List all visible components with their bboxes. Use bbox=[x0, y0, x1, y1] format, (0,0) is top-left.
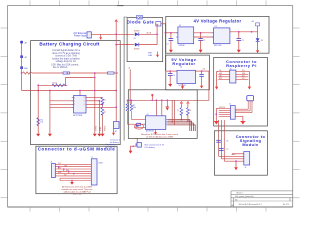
wire bus lines bbox=[168, 120, 190, 132]
wire IC right pin2 bbox=[86, 100, 99, 102]
fuse F2 bbox=[63, 72, 70, 74]
svg-text:U2: U2 bbox=[179, 25, 181, 27]
net labels vertical bbox=[96, 125, 107, 131]
wire inner top bbox=[38, 84, 67, 86]
svg-text:3V3: 3V3 bbox=[242, 70, 245, 72]
connector J7 bbox=[91, 159, 97, 185]
junction bbox=[235, 160, 237, 162]
ground bbox=[169, 50, 173, 53]
junction bbox=[99, 100, 101, 102]
svg-text:IO4: IO4 bbox=[242, 78, 244, 80]
svg-text:J6: J6 bbox=[51, 162, 53, 164]
wire 5V out down bbox=[175, 71, 209, 100]
svg-text:LiPo battery: LiPo battery bbox=[145, 146, 155, 149]
svg-text:J4: J4 bbox=[229, 104, 231, 106]
power flag BATT1 bbox=[20, 41, 27, 45]
net labels on bus bbox=[58, 163, 69, 177]
resistor R3 bbox=[37, 118, 40, 126]
wire battery to ground bbox=[131, 146, 137, 150]
svg-text:D3: D3 bbox=[261, 40, 263, 42]
svg-text:fine in 150mA: fine in 150mA bbox=[53, 66, 68, 69]
ground bbox=[235, 161, 237, 167]
svg-text:5: 5 bbox=[84, 104, 85, 106]
junction bbox=[21, 72, 23, 74]
svg-text:1k: 1k bbox=[177, 110, 179, 112]
power arrow down bbox=[256, 50, 259, 53]
svg-text:uGSM: uGSM bbox=[98, 162, 103, 164]
fuse F1 red zigzag bbox=[23, 72, 32, 74]
svg-text:6: 6 bbox=[84, 101, 85, 103]
usb power box bbox=[247, 96, 254, 101]
svg-text:5V0: 5V0 bbox=[219, 70, 222, 72]
junction bbox=[115, 44, 117, 46]
svg-text:MCP1700: MCP1700 bbox=[214, 45, 222, 47]
frame grid ticks bbox=[117, 5, 124, 7]
IC gnd stub bbox=[155, 130, 157, 133]
svg-text:Raspberry Pi: Raspberry Pi bbox=[226, 63, 257, 68]
svg-text:C2: C2 bbox=[203, 40, 205, 42]
ground bbox=[97, 134, 101, 137]
svg-text:GND: GND bbox=[219, 73, 222, 75]
svg-text:J3: J3 bbox=[230, 68, 232, 70]
rail wire bbox=[127, 99, 174, 101]
wire left gnd drop bbox=[215, 109, 217, 122]
wire into IC left bbox=[22, 90, 117, 92]
svg-text:1k: 1k bbox=[190, 110, 192, 112]
wire left column vertical bbox=[21, 43, 23, 90]
wire +BATT to diode2 bbox=[116, 44, 134, 46]
svg-text:LM2940: LM2940 bbox=[179, 45, 185, 47]
junction bbox=[215, 113, 217, 115]
block 5V voltage regulator bbox=[166, 55, 210, 90]
connector J3 bbox=[230, 70, 236, 83]
connector J4 bbox=[230, 106, 235, 120]
block raspberry pi bbox=[214, 57, 268, 126]
svg-text:Diode Gate: Diode Gate bbox=[127, 20, 155, 25]
wire 4V input bbox=[166, 32, 178, 34]
wire IC right pin3 bbox=[86, 103, 103, 105]
svg-text:(offer max): (offer max) bbox=[73, 192, 82, 195]
IC U3 regulator bbox=[214, 28, 230, 44]
wire left power drop bbox=[217, 72, 219, 87]
left input power flags bbox=[20, 41, 28, 70]
junction bbox=[94, 77, 96, 79]
resistor R8 bbox=[180, 103, 182, 108]
ground bbox=[240, 121, 245, 123]
capacitor C4 bbox=[169, 71, 171, 74]
capacitor C2 bbox=[200, 33, 202, 39]
junction bbox=[37, 90, 39, 92]
junction bbox=[68, 171, 70, 173]
junction bbox=[169, 70, 171, 72]
wire vertical x99.4 bbox=[98, 101, 100, 134]
wire to battery connector bbox=[115, 107, 117, 121]
wire external 5V bbox=[91, 33, 134, 35]
svg-text:at 3V3 for Arduino to I-GSM: at 3V3 for Arduino to I-GSM bbox=[146, 136, 173, 139]
svg-text:GPIO14: GPIO14 bbox=[219, 107, 225, 109]
diode D3 zener bbox=[257, 32, 259, 38]
vertical separator line bbox=[124, 17, 125, 141]
svg-text:+BT: +BT bbox=[24, 57, 27, 59]
block d-u3G module bbox=[36, 146, 117, 194]
junction bbox=[115, 33, 117, 35]
wires into connector bbox=[219, 155, 244, 157]
junction bbox=[161, 99, 163, 101]
svg-text:C7: C7 bbox=[226, 149, 228, 151]
OR tag box bbox=[137, 15, 143, 19]
wire feed from above bbox=[129, 69, 131, 104]
wire top long horizontal bbox=[32, 72, 118, 74]
junction bbox=[94, 90, 96, 92]
hierarchical pin bbox=[156, 22, 161, 26]
svg-text:TXD: TXD bbox=[219, 75, 222, 77]
junction bbox=[58, 166, 60, 168]
power flag +BATT up arrow bbox=[115, 21, 117, 34]
wire IC left pins bbox=[50, 100, 74, 102]
block 4V voltage regulator bbox=[166, 16, 269, 53]
wire OR output vertical bbox=[156, 24, 158, 45]
svg-text:C3: C3 bbox=[242, 40, 244, 42]
wire hier pin out bbox=[161, 23, 166, 25]
svg-text:1N5819: 1N5819 bbox=[134, 48, 140, 50]
power flag BATT3 bbox=[20, 66, 28, 70]
block OR diode gate bbox=[127, 18, 163, 62]
svg-text:MCP73831: MCP73831 bbox=[73, 115, 82, 117]
ground bbox=[237, 50, 241, 53]
power arrow down bbox=[166, 100, 168, 107]
ground bbox=[93, 134, 97, 137]
capacitor C5 bbox=[201, 71, 203, 74]
svg-text:NCP1402: NCP1402 bbox=[179, 85, 186, 87]
connector J6 bbox=[52, 164, 56, 178]
svg-text:C4: C4 bbox=[173, 75, 175, 77]
junction bbox=[67, 72, 69, 74]
svg-text:10k: 10k bbox=[40, 122, 43, 124]
note text bbox=[51, 49, 80, 69]
IC U4 5V regulator bbox=[177, 70, 196, 83]
junction bbox=[187, 120, 189, 122]
page frame bbox=[8, 6, 293, 207]
junction bbox=[201, 70, 203, 72]
junction bbox=[132, 145, 134, 147]
junction bbox=[37, 84, 39, 86]
resistor R9 bbox=[187, 103, 189, 108]
junction bbox=[49, 90, 51, 92]
ground bbox=[48, 134, 52, 137]
capacitor C1 bbox=[170, 33, 172, 39]
wire below connector bbox=[113, 129, 115, 133]
wire vertical R left bbox=[37, 85, 39, 133]
power flag BATT2 bbox=[20, 55, 27, 59]
resistor R7 bbox=[126, 100, 128, 103]
block mcu bbox=[128, 90, 197, 139]
junction bbox=[156, 99, 158, 101]
wire +BATT down to battery connector bbox=[115, 34, 117, 107]
svg-text:2k: 2k bbox=[104, 112, 106, 114]
junction bbox=[63, 168, 65, 170]
capacitor C6 bbox=[216, 139, 221, 141]
power arrow down bbox=[100, 34, 102, 37]
IC U5 mcu bbox=[146, 116, 166, 130]
junction bbox=[102, 103, 104, 105]
power flag +4V bbox=[256, 23, 260, 26]
ground bbox=[199, 50, 203, 53]
wire 5V out bbox=[196, 70, 209, 72]
connector J5 bbox=[244, 152, 250, 165]
wire U3 out bbox=[230, 31, 258, 33]
wire vertical x94.8 bbox=[94, 73, 96, 134]
svg-text:+BT: +BT bbox=[114, 131, 117, 133]
junction bbox=[170, 32, 172, 34]
junction bbox=[94, 72, 96, 74]
svg-text:C6: C6 bbox=[226, 141, 228, 143]
svg-text:J5: J5 bbox=[245, 167, 247, 169]
power arrow down bbox=[248, 87, 251, 90]
wire right power drop bbox=[248, 72, 249, 87]
crystal Y1 bbox=[137, 123, 141, 125]
wire VDD to IC top bbox=[79, 91, 81, 96]
power arrow down bbox=[157, 52, 159, 55]
capacitor C3 bbox=[238, 32, 240, 39]
block battery charging circuit bbox=[31, 41, 121, 145]
wire second pin bbox=[194, 36, 214, 38]
battery connector J2 bbox=[114, 122, 120, 129]
block signaling module bbox=[214, 131, 267, 175]
svg-text:J7: J7 bbox=[91, 157, 93, 159]
svg-text:Module: Module bbox=[242, 142, 259, 147]
svg-text:Sheet: /: Sheet: / bbox=[236, 192, 243, 195]
junction bbox=[71, 180, 73, 182]
svg-text:1N5819: 1N5819 bbox=[134, 31, 140, 33]
svg-text:U5: U5 bbox=[147, 114, 149, 116]
IC U1 battery charger bbox=[74, 96, 87, 114]
battery BT1 bbox=[136, 138, 138, 142]
wire IC right pin1 bbox=[86, 96, 103, 98]
junction bbox=[251, 31, 253, 33]
svg-text:C1: C1 bbox=[167, 44, 169, 46]
resistor R5 vertical bbox=[101, 97, 104, 105]
ground bbox=[101, 134, 105, 137]
junction bbox=[129, 99, 131, 101]
power arrow down bbox=[200, 86, 203, 89]
junction bbox=[200, 32, 202, 34]
svg-text:SCL: SCL bbox=[242, 75, 245, 77]
svg-text:CHRG: CHRG bbox=[96, 125, 98, 131]
wire 5V input bbox=[166, 70, 178, 72]
title block bbox=[231, 191, 293, 207]
junction bbox=[165, 32, 167, 34]
capacitor C7 bbox=[219, 148, 224, 150]
svg-text:R2 2k: R2 2k bbox=[53, 82, 58, 84]
wire 5V drop into bus bbox=[174, 100, 176, 125]
junction bbox=[115, 106, 117, 108]
IC U2 regulator bbox=[178, 27, 194, 44]
svg-text:Battery Charging Circuit: Battery Charging Circuit bbox=[39, 41, 99, 46]
wire IC top pins bbox=[155, 100, 157, 116]
svg-text:8: 8 bbox=[84, 97, 85, 99]
svg-text:PROG: PROG bbox=[105, 125, 107, 131]
wire U2 out bbox=[194, 32, 214, 34]
connector J1 external power bbox=[87, 32, 91, 38]
svg-text:U3: U3 bbox=[215, 26, 217, 28]
svg-text:4V Voltage Regulator: 4V Voltage Regulator bbox=[194, 19, 242, 24]
ground bbox=[36, 134, 40, 137]
svg-text:+5V External: +5V External bbox=[73, 32, 87, 35]
ground bbox=[214, 121, 219, 123]
wire diode2 out bbox=[139, 44, 157, 46]
ground bbox=[168, 84, 172, 87]
svg-text:Connector to d-uGSM Module: Connector to d-uGSM Module bbox=[38, 147, 116, 152]
svg-text:Power Input: Power Input bbox=[74, 35, 87, 38]
wire bus bbox=[55, 164, 91, 180]
diode D2 bbox=[135, 43, 139, 47]
svg-text:Id: 1/1: Id: 1/1 bbox=[283, 204, 290, 206]
power arrow down bbox=[215, 87, 218, 90]
junction bbox=[166, 99, 168, 101]
svg-text:RXD: RXD bbox=[219, 78, 222, 80]
junction bbox=[73, 173, 75, 175]
wire drops from pi block bbox=[218, 120, 220, 156]
wire vertical R2 left bbox=[49, 91, 51, 134]
wire right gnd drop bbox=[242, 116, 244, 121]
power arrow down bbox=[112, 133, 115, 136]
wire OR out routing down bbox=[165, 24, 167, 71]
fuse F3 bbox=[108, 72, 115, 74]
junction bbox=[238, 31, 240, 33]
svg-text:1k: 1k bbox=[104, 100, 106, 102]
svg-text:KiCad E.D.A. kicad 4.0.7: KiCad E.D.A. kicad 4.0.7 bbox=[239, 203, 263, 206]
diode D1 bbox=[135, 32, 139, 36]
svg-text:ATTINY85: ATTINY85 bbox=[146, 130, 154, 133]
svg-text:10k: 10k bbox=[133, 107, 136, 109]
ground bbox=[71, 181, 73, 183]
svg-text:IO2: IO2 bbox=[64, 175, 67, 177]
wire diode1 out bbox=[139, 33, 157, 35]
svg-text:File: power_board.sch: File: power_board.sch bbox=[235, 195, 254, 198]
svg-text:D1: D1 bbox=[134, 38, 136, 40]
ground bbox=[129, 151, 133, 154]
resistor R6 vertical bbox=[101, 108, 104, 116]
svg-text:Regulator: Regulator bbox=[172, 61, 195, 66]
resistor R8b bbox=[130, 104, 133, 111]
wire vertical x67 bbox=[66, 78, 95, 86]
wire IC right pin4 bbox=[86, 106, 116, 108]
resistor R1 bbox=[52, 84, 65, 87]
svg-text:+BT: +BT bbox=[24, 43, 27, 45]
junction bbox=[181, 119, 183, 121]
svg-text:+B: +B bbox=[128, 68, 130, 70]
svg-text:U4: U4 bbox=[180, 66, 182, 68]
junction bbox=[156, 33, 158, 35]
